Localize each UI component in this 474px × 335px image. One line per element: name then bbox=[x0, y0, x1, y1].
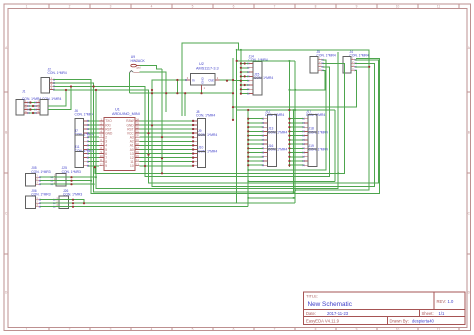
connector stack J6 J7 J11 CON 1*MR4 bbox=[75, 109, 94, 168]
svg-text:In: In bbox=[192, 78, 195, 82]
svg-text:3: 3 bbox=[110, 327, 112, 331]
wire junctions bbox=[29, 49, 370, 208]
wire J5.4 to y90 run bbox=[289, 70, 325, 90]
connector J26 CON 1*MR3 bbox=[53, 189, 82, 209]
wire bus y110 bbox=[237, 109, 336, 111]
wire J15 row1 pin1 bbox=[72, 176, 97, 178]
svg-text:10: 10 bbox=[396, 327, 400, 331]
title block bbox=[304, 292, 466, 325]
wire U9 sleeve to GND bus bbox=[129, 73, 131, 93]
wire U2 input drop x177 bbox=[176, 80, 178, 93]
wire J16 row2 pin2 long bbox=[73, 202, 295, 204]
wire J1 feeder b bbox=[48, 87, 71, 110]
wire J5.1 to J12 bus bbox=[248, 60, 326, 170]
wire U2 gnd to bus bbox=[201, 90, 203, 93]
svg-text:9: 9 bbox=[356, 327, 358, 331]
wire U9.1 to x162 riser bbox=[140, 66, 163, 69]
svg-text:7: 7 bbox=[274, 327, 276, 331]
regulator U2 AMS1117-3.3 bbox=[185, 62, 219, 90]
svg-text:CON. 1*MR4: CON. 1*MR4 bbox=[268, 130, 287, 134]
svg-text:GND: GND bbox=[200, 76, 204, 84]
svg-text:6: 6 bbox=[233, 327, 235, 331]
svg-text:J1: J1 bbox=[22, 90, 26, 94]
wire x335 riser bbox=[334, 110, 336, 181]
svg-text:CON. 1*MR4: CON. 1*MR4 bbox=[265, 113, 284, 117]
svg-text:1: 1 bbox=[26, 5, 28, 9]
wire J2.1 down-left riser to outer loop bbox=[54, 59, 380, 194]
svg-text:New Schematic: New Schematic bbox=[308, 301, 353, 308]
svg-text:9: 9 bbox=[356, 5, 358, 9]
wire J4.3 loop bbox=[295, 67, 369, 190]
svg-text:10: 10 bbox=[130, 164, 134, 168]
svg-text:8: 8 bbox=[315, 327, 317, 331]
wire stub x166 bbox=[165, 93, 167, 112]
connector J05 CON 1*MR3 bbox=[26, 166, 51, 186]
svg-text:CON. 1*MR4: CON. 1*MR4 bbox=[196, 114, 215, 118]
wire J5.2 to U9.1 via x162 bbox=[95, 63, 345, 173]
wire J2.2 riser to y192 run bbox=[54, 83, 294, 192]
svg-text:9: 9 bbox=[105, 164, 107, 168]
svg-text:4: 4 bbox=[151, 5, 153, 9]
wire J14 bus drop bbox=[240, 50, 242, 60]
svg-text:CON. 1*MR4: CON. 1*MR4 bbox=[48, 71, 67, 75]
wire J15 row1 pin3 bbox=[72, 183, 94, 185]
svg-text:2: 2 bbox=[69, 327, 71, 331]
connector J25 CON 1*MR3 bbox=[51, 166, 81, 186]
connector stack J12 J13 J16 CON 1*MR4 bbox=[262, 109, 288, 166]
wire row2 pair interconnect bbox=[40, 200, 73, 207]
connector J2 CON 1*MR4 bbox=[41, 67, 67, 93]
wire x236 top bbox=[236, 50, 238, 61]
wire J1 pair interconnect bbox=[29, 103, 36, 114]
svg-text:ARDUINO_MINI: ARDUINO_MINI bbox=[112, 112, 140, 116]
connector stack J14 J15 CON 1*MR4 bbox=[247, 55, 273, 95]
svg-text:10: 10 bbox=[396, 5, 400, 9]
wire J1 feeder a bbox=[48, 90, 66, 106]
wire J15 row1 pin2 bbox=[72, 180, 92, 182]
wire U1 right pins to J8 stack bbox=[139, 121, 193, 166]
wire GND bus y93 bbox=[130, 92, 234, 94]
svg-text:Out: Out bbox=[208, 78, 213, 82]
svg-text:7: 7 bbox=[274, 5, 276, 9]
svg-text:3: 3 bbox=[110, 5, 112, 9]
wire U2 input to J4.2 bbox=[152, 63, 374, 186]
wire y198 segment bbox=[248, 197, 293, 199]
wire stub x185 bbox=[184, 93, 186, 116]
svg-text:Sheet:: Sheet: bbox=[422, 311, 434, 316]
power jack U9 HWJACK bbox=[129, 55, 145, 73]
svg-text:CON. 1*MR4: CON. 1*MR4 bbox=[268, 148, 287, 152]
svg-text:11: 11 bbox=[437, 327, 441, 331]
wire J16 row2 pin1 bbox=[73, 200, 84, 204]
svg-text:EasyEDA V4.11.9: EasyEDA V4.11.9 bbox=[306, 319, 340, 324]
wire J2.3 long to J5.3 bbox=[54, 67, 330, 177]
svg-text:CON. 1*MR4: CON. 1*MR4 bbox=[306, 113, 325, 117]
connector J4 CON 1*MR4 bbox=[343, 50, 369, 73]
svg-text:REV:: REV: bbox=[437, 299, 447, 304]
svg-text:1: 1 bbox=[26, 327, 28, 331]
svg-text:gnd: gnd bbox=[137, 67, 142, 70]
svg-text:4: 4 bbox=[151, 327, 153, 331]
connector J06 CON 1*MR3 bbox=[26, 189, 51, 209]
connector stack J8 J9 J10 CON 1*MR4 bbox=[192, 110, 217, 168]
wire x162 riser bbox=[161, 69, 163, 173]
wire J2.4 long to J4.1 bbox=[54, 60, 379, 183]
svg-text:6: 6 bbox=[233, 5, 235, 9]
svg-text:1/1: 1/1 bbox=[439, 311, 445, 316]
wire y60.9 feed bbox=[237, 60, 296, 62]
wire J12 stack bus bbox=[248, 110, 263, 207]
wire U1 left pins to J6 stack bbox=[88, 121, 99, 166]
svg-text:TITLE:: TITLE: bbox=[306, 294, 318, 299]
svg-text:1: 1 bbox=[204, 86, 206, 90]
svg-text:AMS1117-3.3: AMS1117-3.3 bbox=[196, 67, 219, 71]
wire row1 pair interconnect bbox=[40, 177, 72, 184]
connector stack J17 J18 J19 CON 1*MR4 bbox=[303, 109, 328, 166]
wire U2 output to J15.1 bbox=[220, 79, 249, 82]
svg-text:B: B bbox=[468, 131, 470, 135]
svg-text:1.0: 1.0 bbox=[448, 299, 454, 304]
wire J14 J15 feed bus bbox=[237, 60, 249, 203]
wire x295 riser bbox=[294, 61, 296, 203]
svg-text:8: 8 bbox=[315, 5, 317, 9]
wire x96 riser to y188 run bbox=[96, 52, 338, 188]
connector J3 CON 1*MR4 bbox=[22, 97, 62, 115]
svg-text:Drawn By:: Drawn By: bbox=[390, 319, 409, 324]
wire J17 stack bus bbox=[289, 61, 303, 167]
svg-text:5: 5 bbox=[192, 327, 194, 331]
wire vertical x233 bbox=[232, 58, 234, 120]
svg-text:2: 2 bbox=[69, 5, 71, 9]
svg-text:5: 5 bbox=[192, 5, 194, 9]
svg-text:despierta40: despierta40 bbox=[412, 319, 435, 324]
svg-text:11: 11 bbox=[437, 5, 441, 9]
IC U1 ARDUINO_MINI bbox=[99, 108, 139, 171]
svg-text:B: B bbox=[5, 131, 7, 135]
wire top rail x181 bbox=[182, 43, 369, 116]
svg-text:CON. 1*MR4: CON. 1*MR4 bbox=[309, 148, 328, 152]
connector J1 CON 1*MR4 bbox=[16, 90, 29, 116]
svg-text:CON. 1*MR4: CON. 1*MR4 bbox=[309, 130, 328, 134]
wire y181 run bbox=[248, 180, 335, 182]
wire bus y107 to J4.4 bbox=[233, 70, 357, 107]
svg-text:2017-11-23: 2017-11-23 bbox=[327, 311, 349, 316]
connector J5 CON 1*MR4 bbox=[310, 50, 336, 73]
wire J16 row2 pin3 long bbox=[73, 206, 248, 208]
wire U9 gnd down x166 bbox=[140, 72, 167, 112]
svg-text:Date:: Date: bbox=[306, 311, 316, 316]
svg-text:HWJACK: HWJACK bbox=[131, 59, 146, 63]
